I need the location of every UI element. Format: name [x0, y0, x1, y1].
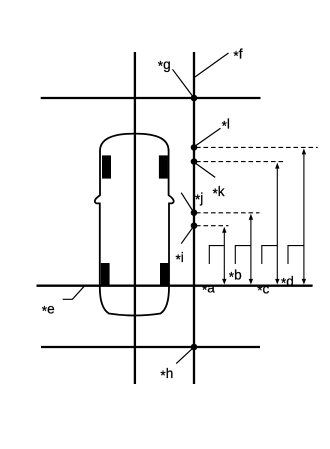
dashed line from *l	[196, 146, 318, 148]
node *l	[191, 144, 198, 151]
node *i	[191, 222, 198, 229]
leader line *j	[181, 193, 193, 212]
leader line *k	[195, 163, 216, 178]
wheel front-left	[102, 155, 111, 178]
horizontal line top	[41, 97, 261, 99]
node *j	[191, 209, 198, 216]
svg-text:*b: *b	[229, 268, 242, 285]
svg-text:*c: *c	[257, 281, 269, 298]
dimension arrow c (double headed)	[275, 163, 279, 285]
dimension arrow a (double headed)	[222, 227, 226, 285]
horizontal line bottom	[41, 346, 260, 348]
leader line *l	[195, 128, 221, 146]
svg-text:*d: *d	[281, 274, 294, 291]
svg-text:*k: *k	[213, 184, 225, 201]
svg-text:*a: *a	[202, 281, 215, 298]
bracket mark d	[288, 246, 304, 264]
bracket mark a	[209, 246, 224, 264]
svg-text:*h: *h	[160, 366, 173, 383]
dimension arrow b (double headed)	[249, 214, 253, 285]
wheel front-right	[159, 155, 168, 178]
leader line *h	[176, 348, 193, 363]
horizontal baseline (middle)	[37, 285, 313, 287]
vehicle body outline	[95, 134, 174, 316]
node at top intersection (*g point)	[191, 95, 198, 102]
bracket mark c	[262, 246, 278, 264]
wheel rear-left	[101, 263, 110, 285]
svg-text:*f: *f	[233, 47, 242, 64]
dashed line from *i	[196, 225, 229, 227]
leader line *g	[173, 69, 193, 96]
node *h	[191, 344, 198, 351]
vehicle centerline (vertical)	[134, 52, 136, 384]
leader line *e	[63, 286, 85, 300]
dimension arrow d (double headed)	[302, 148, 306, 284]
bracket mark b	[235, 246, 251, 264]
node *k	[191, 158, 198, 165]
svg-text:*j: *j	[195, 190, 203, 207]
dashed line from *k	[196, 161, 286, 163]
leader line *f	[195, 53, 229, 77]
wheel rear-right	[160, 263, 169, 285]
svg-text:*g: *g	[158, 57, 171, 74]
lane line (vertical right)	[193, 52, 195, 384]
svg-text:*i: *i	[176, 250, 184, 267]
dashed line from *j	[196, 212, 260, 214]
leader line *i	[181, 227, 193, 244]
svg-text:*l: *l	[222, 117, 230, 134]
svg-text:*e: *e	[42, 302, 55, 319]
